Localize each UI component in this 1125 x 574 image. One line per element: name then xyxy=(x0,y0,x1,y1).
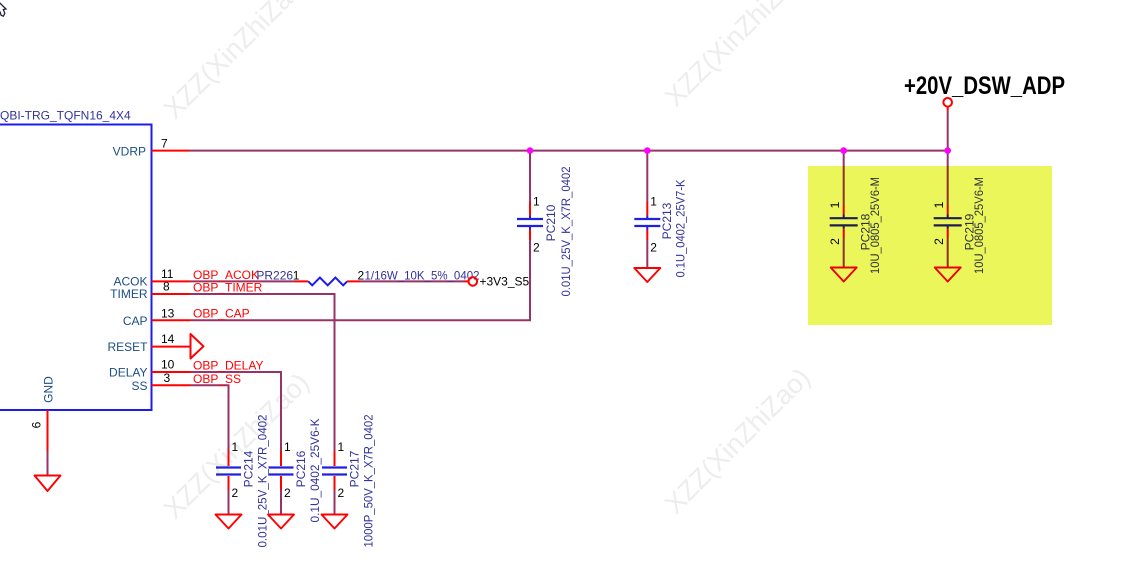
svg-text:2: 2 xyxy=(650,241,657,255)
pin stub VDRP xyxy=(152,150,190,152)
op-amp U1 : IC body QBI-TRG_TQFN16_4X4 xyxy=(0,125,152,411)
svg-text:1: 1 xyxy=(533,195,540,209)
capacitor PC218 wires xyxy=(843,151,845,268)
net label OBP_CAP xyxy=(193,307,250,321)
junction dot at PC218 xyxy=(840,147,847,154)
svg-text:0.1U_0402_25V6-K: 0.1U_0402_25V6-K xyxy=(308,419,322,523)
PC217 pin number 1 xyxy=(338,440,345,454)
wire OBP_TIMER xyxy=(190,294,335,451)
refdes PC219 rotated xyxy=(963,213,977,250)
PC219 pin number 2 rotated xyxy=(932,238,946,245)
capacitor PC213 wires xyxy=(646,151,648,268)
PC219 pin number 1 rotated xyxy=(932,201,946,208)
pin name DELAY xyxy=(109,366,147,380)
PC210 pin number 2 xyxy=(533,241,540,255)
PC216 pin number 2 xyxy=(284,486,291,500)
svg-text:2: 2 xyxy=(232,486,239,500)
svg-text:XZZ(XinZhiZao): XZZ(XinZhiZao) xyxy=(659,362,816,519)
svg-text:PC217: PC217 xyxy=(348,450,362,487)
refdes PC214 rotated xyxy=(242,450,256,487)
svg-text:6: 6 xyxy=(30,421,44,428)
svg-text:2: 2 xyxy=(358,269,365,283)
capacitor PC210 plates xyxy=(517,219,543,226)
pin name ACOK xyxy=(113,275,147,289)
ground symbol PC219 xyxy=(935,268,961,282)
net label OBP_DELAY xyxy=(193,359,263,373)
value PC214 rotated xyxy=(256,414,270,547)
svg-text:+20V_DSW_ADP: +20V_DSW_ADP xyxy=(904,72,1065,100)
svg-text:0.01U_25V_K_X7R_0402: 0.01U_25V_K_X7R_0402 xyxy=(559,166,573,296)
svg-text:1: 1 xyxy=(650,195,657,209)
svg-text:PC216: PC216 xyxy=(294,450,308,487)
pin stub TIMER xyxy=(152,293,191,295)
pin stub RESET xyxy=(152,346,191,348)
capacitor PC214 wires xyxy=(228,451,230,515)
pin number 13 xyxy=(161,306,175,320)
pin name RESET xyxy=(107,340,148,354)
svg-text:VDRP: VDRP xyxy=(113,145,146,159)
capacitor PC216 plates xyxy=(269,468,294,475)
net label +20V_DSW_ADP xyxy=(904,72,1065,100)
capacitor PC217 plates xyxy=(322,468,347,475)
PC217 pin number 2 xyxy=(338,486,345,500)
svg-text:SS: SS xyxy=(131,379,147,393)
junction dot at PC213 xyxy=(644,147,651,154)
svg-text:1: 1 xyxy=(284,440,291,454)
power symbol +20V_DSW_ADP circle xyxy=(943,98,952,107)
ground symbol PC213 xyxy=(634,268,660,282)
pin number 6 rotated xyxy=(30,421,44,428)
wire OBP_DELAY xyxy=(191,372,282,451)
svg-text:1000P_50V_K_X7R_0402: 1000P_50V_K_X7R_0402 xyxy=(362,414,376,547)
pin number 14 xyxy=(161,332,175,346)
PC218 pin number 2 rotated xyxy=(828,238,842,245)
pin name VDRP xyxy=(113,145,146,159)
PC213 pin number 2 xyxy=(650,241,657,255)
capacitor PC216 wires xyxy=(280,451,282,515)
wire OBP_ACOK xyxy=(190,280,465,282)
svg-text:10: 10 xyxy=(161,358,175,372)
PC210 pin number 1 xyxy=(533,195,540,209)
capacitor PC219 wires xyxy=(947,107,949,268)
svg-text:PR226: PR226 xyxy=(256,269,293,283)
capacitor PC217 wires xyxy=(334,451,336,515)
svg-text:1: 1 xyxy=(338,440,345,454)
svg-text:OBP_CAP: OBP_CAP xyxy=(193,307,250,321)
wire VDRP net xyxy=(189,150,948,152)
resistor value 1/16W_10K_5%_0402 xyxy=(365,268,480,282)
refdes PC210 rotated xyxy=(544,204,558,241)
net label OBP_TIMER xyxy=(193,281,263,295)
svg-text:14: 14 xyxy=(161,332,175,346)
svg-text:GND: GND xyxy=(42,376,56,403)
watermark 1 xyxy=(158,0,315,124)
net label +3V3_S5 xyxy=(480,275,530,289)
pin name TIMER xyxy=(110,287,148,301)
watermark 4 xyxy=(659,362,816,519)
wire OBP_SS xyxy=(191,385,229,451)
PC218 pin number 1 rotated xyxy=(828,201,842,208)
svg-text:XZZ(XinZhiZao): XZZ(XinZhiZao) xyxy=(158,0,315,124)
value PC217 rotated xyxy=(362,414,376,547)
pin stub ACOK and resistor leads xyxy=(152,280,469,282)
capacitor PC214 plates xyxy=(216,468,241,475)
pin number 10 xyxy=(161,358,175,372)
svg-text:DELAY: DELAY xyxy=(109,366,147,380)
pin name CAP xyxy=(123,314,148,328)
value PC218 rotated xyxy=(868,177,882,274)
svg-text:2: 2 xyxy=(284,486,291,500)
resistor PR226 zigzag xyxy=(308,278,347,286)
pin number 7 xyxy=(161,137,168,151)
svg-text:OBP_DELAY: OBP_DELAY xyxy=(193,359,263,373)
ground symbol at GND pin xyxy=(35,476,61,492)
svg-text:2: 2 xyxy=(533,241,540,255)
pin stub CAP xyxy=(152,319,191,321)
PC214 pin number 2 xyxy=(232,486,239,500)
svg-text:CAP: CAP xyxy=(123,314,148,328)
pin number 11 xyxy=(161,267,174,281)
capacitor PC213 plates xyxy=(634,219,660,226)
refdes PC218 rotated xyxy=(859,213,873,250)
power symbol +3V3_S5 circle xyxy=(469,277,478,286)
svg-text:PC214: PC214 xyxy=(242,450,256,487)
svg-text:1: 1 xyxy=(232,440,239,454)
svg-text:2: 2 xyxy=(338,486,345,500)
svg-text:+3V3_S5: +3V3_S5 xyxy=(480,275,530,289)
wire OBP_CAP xyxy=(191,240,531,320)
refdes PC217 rotated xyxy=(348,450,362,487)
svg-text:1: 1 xyxy=(293,269,300,283)
net label OBP_ACOK xyxy=(193,268,259,282)
resistor pin number 1 xyxy=(293,269,300,283)
svg-text:0.01U_25V_K_X7R_0402: 0.01U_25V_K_X7R_0402 xyxy=(256,414,270,547)
value PC219 rotated xyxy=(972,177,986,274)
refdes PR226 xyxy=(256,269,293,283)
svg-text:PC213: PC213 xyxy=(660,202,674,239)
value PC210 rotated xyxy=(559,166,573,296)
mouse cursor xyxy=(0,2,6,16)
pin number 3 xyxy=(164,371,171,385)
yellow highlight region xyxy=(808,166,1052,325)
capacitor PC210 wires xyxy=(529,151,531,320)
svg-text:7: 7 xyxy=(161,137,168,151)
pin stub DELAY xyxy=(152,371,191,373)
svg-text:TIMER: TIMER xyxy=(110,287,148,301)
watermark 2 xyxy=(659,0,816,112)
net label OBP_SS xyxy=(193,372,241,386)
no-connect triangle RESET xyxy=(191,334,204,359)
svg-text:RESET: RESET xyxy=(107,340,148,354)
value PC213 rotated xyxy=(674,180,688,278)
value PC216 rotated xyxy=(308,419,322,523)
ground symbol PC217 xyxy=(322,515,348,529)
pin stub GND xyxy=(47,410,49,451)
wire GND net xyxy=(47,451,49,476)
svg-text:XZZ(XinZhiZao): XZZ(XinZhiZao) xyxy=(659,0,816,112)
watermark 3 xyxy=(158,367,315,524)
refdes PC213 rotated xyxy=(660,202,674,239)
junction dot at PC210 xyxy=(527,147,534,154)
svg-text:13: 13 xyxy=(161,306,175,320)
capacitor PC218 plates xyxy=(830,218,858,225)
refdes PC216 rotated xyxy=(294,450,308,487)
PC216 pin number 1 xyxy=(284,440,291,454)
svg-text:1/16W_10K_5%_0402: 1/16W_10K_5%_0402 xyxy=(365,268,480,282)
PC213 pin number 1 xyxy=(650,195,657,209)
PC214 pin number 1 xyxy=(232,440,239,454)
capacitor PC219 plates xyxy=(934,218,962,225)
ground symbol PC218 xyxy=(831,268,857,282)
svg-text:OBP_SS: OBP_SS xyxy=(193,372,241,386)
IC title xyxy=(0,109,131,123)
ground symbol PC214 xyxy=(216,515,242,529)
svg-text:3: 3 xyxy=(164,371,171,385)
pin name GND rotated xyxy=(42,376,56,403)
svg-text:QBI-TRG_TQFN16_4X4: QBI-TRG_TQFN16_4X4 xyxy=(0,109,131,123)
svg-text:PC210: PC210 xyxy=(544,204,558,241)
junction dot at PC219 xyxy=(944,147,951,154)
ground symbol PC216 xyxy=(268,515,294,529)
resistor pin number 2 xyxy=(358,269,365,283)
pin stub SS xyxy=(152,384,191,386)
pin number 8 xyxy=(163,280,170,294)
svg-text:OBP_TIMER: OBP_TIMER xyxy=(193,281,263,295)
pin name SS xyxy=(131,379,147,393)
svg-text:0.1U_0402_25V7-K: 0.1U_0402_25V7-K xyxy=(674,180,688,278)
